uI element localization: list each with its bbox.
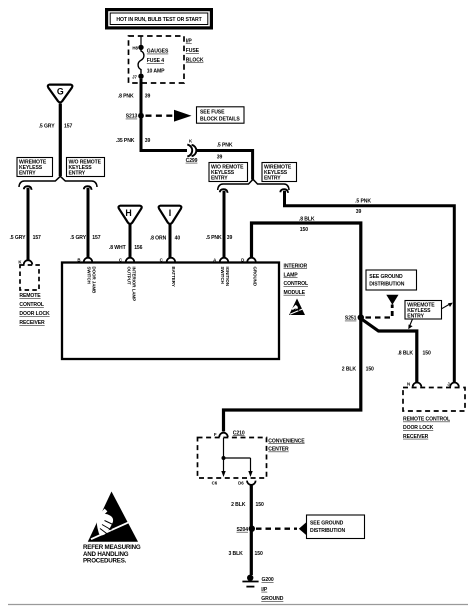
svg-text:RECEIVER: RECEIVER [403,434,429,440]
branch hook K [24,186,32,190]
svg-text:C299: C299 [186,158,198,164]
svg-text:150: 150 [255,551,263,557]
pin hook A [220,258,229,262]
svg-text:157: 157 [33,235,41,241]
pin hook N [413,383,422,387]
connector C299 [186,139,198,164]
svg-text:150: 150 [423,350,431,356]
option box W/REMOTE KEYLESS ENTRY left [17,158,53,177]
ESD warning logo [88,492,140,542]
svg-text:DISTRIBUTION: DISTRIBUTION [310,528,345,534]
svg-text:PROCEDURES.: PROCEDURES. [83,558,127,565]
svg-text:BLOCK DETAILS: BLOCK DETAILS [200,117,240,123]
svg-text:.8 ORN: .8 ORN [150,236,167,242]
svg-text:HOT IN RUN, BULB TEST OR START: HOT IN RUN, BULB TEST OR START [116,17,202,23]
svg-text:REMOTE: REMOTE [19,293,41,299]
svg-text:BLOCK: BLOCK [186,58,204,64]
branch hook A [220,189,228,193]
svg-text:F: F [214,432,217,437]
svg-text:ENTRY: ENTRY [264,176,281,182]
svg-text:INTERIOR LAMPOUTPUT: INTERIOR LAMPOUTPUT [127,267,137,302]
branch hook B [84,186,92,190]
svg-text:.5 PNK: .5 PNK [206,235,222,241]
remote control door lock receiver label left [19,293,50,326]
dashed reference arrow from S213 [146,110,192,122]
convenience center internal wiring [221,438,252,477]
wire pin D up over to S251 down to C210 [224,223,361,432]
splice S204 [237,526,256,533]
svg-text:I/P: I/P [261,587,268,593]
svg-text:C210: C210 [233,430,245,436]
svg-text:40: 40 [175,236,181,242]
splice S251 [345,314,364,321]
svg-text:39: 39 [217,155,223,161]
svg-text:CONTROL: CONTROL [19,302,43,308]
svg-text:157: 157 [64,124,72,130]
see ground distribution box lower [307,515,365,539]
svg-text:CENTER: CENTER [268,447,289,453]
svg-text:2 BLK: 2 BLK [231,502,246,508]
svg-text:150: 150 [256,502,264,508]
svg-text:G200: G200 [262,577,274,583]
svg-text:K: K [189,139,193,144]
svg-text:J7: J7 [132,74,137,79]
wire H to pin C [129,224,132,258]
svg-text:IGNITIONSWITCH: IGNITIONSWITCH [220,267,230,287]
svg-text:ENTRY: ENTRY [69,171,86,177]
svg-text:157: 157 [92,235,100,241]
svg-text:H: H [125,208,131,218]
svg-text:CONTROL: CONTROL [284,281,308,287]
svg-text:GROUND: GROUND [252,267,257,287]
pin K hook left receiver [24,260,33,264]
svg-text:ENTRY: ENTRY [211,176,228,182]
convenience center dashed box [198,438,267,479]
svg-text:K: K [18,260,22,265]
svg-text:CONVENIENCE: CONVENIENCE [268,438,305,444]
svg-text:39: 39 [356,209,362,215]
svg-text:ENTRY: ENTRY [19,171,36,177]
wire C299 to option split [197,151,253,180]
wire G down to option split [59,104,62,177]
svg-text:H8: H8 [132,45,138,50]
svg-text:150: 150 [300,227,308,233]
svg-text:GAUGES: GAUGES [147,49,169,55]
H triangle [119,206,142,224]
pin hook D6 [247,481,256,485]
svg-text:39: 39 [227,235,233,241]
svg-text:SEE GROUND: SEE GROUND [369,274,403,280]
option box W/O REMOTE KEYLESS ENTRY left [67,158,105,177]
svg-text:S251: S251 [345,316,357,322]
callout arrow to pnk wire [442,303,453,309]
ESD symbol small [289,299,306,316]
svg-text:.5 GRY: .5 GRY [39,124,56,130]
I triangle [159,206,182,224]
I/P fuse block dashed box [129,36,185,83]
power feed box HOT IN RUN, BULB TEST OR START [105,8,213,30]
ground label G200 I/P GROUND [261,577,283,602]
svg-text:B: B [77,258,80,263]
pin hook B [84,258,93,262]
ESD warning text [83,544,141,565]
pin hook C battery [167,258,176,262]
svg-text:N: N [407,382,410,387]
see ground distribution box upper [366,270,417,290]
svg-text:C6: C6 [212,481,218,486]
remote control door lock receiver dashed box [403,388,465,412]
svg-text:2 BLK: 2 BLK [342,367,357,373]
svg-text:D: D [241,258,244,263]
svg-text:INTERIOR: INTERIOR [284,263,308,269]
svg-text:DISTRIBUTION: DISTRIBUTION [369,282,404,288]
svg-text:.5 GRY: .5 GRY [70,235,87,241]
svg-text:39: 39 [145,138,151,144]
wire D6 down to ground [250,485,253,575]
branch hook right [280,189,288,193]
svg-text:FUSE: FUSE [186,48,200,54]
wire to pin K [27,188,30,261]
wire I to pin C [169,224,172,258]
I/P fuse block label [186,39,204,64]
pin hook C interior lamp output [126,258,135,262]
svg-text:SEE GROUND: SEE GROUND [310,521,344,527]
connector C210 pin F hook [219,433,228,437]
svg-text:10 AMP: 10 AMP [147,69,165,75]
wire to pin B [87,188,90,258]
svg-text:.8 PNK: .8 PNK [118,93,134,99]
dashed reference from S204 [256,522,306,535]
svg-text:FUSE 4: FUSE 4 [147,58,165,64]
wire to pin A [223,191,226,258]
pin hook D [247,258,256,262]
svg-text:MODULE: MODULE [284,290,306,296]
wire fuse J7 down to corner and right to C299 [141,79,187,151]
interior lamp control module label [284,263,308,296]
svg-text:SEE FUSE: SEE FUSE [200,110,225,116]
svg-text:S213: S213 [126,114,138,120]
svg-text:DOOR LOCK: DOOR LOCK [403,425,434,431]
interior lamp control module box [62,263,279,360]
ground G200 [242,575,258,587]
svg-text:RECEIVER: RECEIVER [19,320,45,326]
pin letters [77,258,244,263]
see fuse block details box [197,107,245,123]
svg-text:GROUND: GROUND [261,596,283,602]
svg-text:ENTRY: ENTRY [407,314,424,320]
option box W/O REMOTE KEYLESS ENTRY [209,163,248,182]
option box W/REMOTE KEYLESS ENTRY [262,163,297,182]
svg-text:.5 PNK: .5 PNK [355,198,371,204]
svg-text:3 BLK: 3 BLK [228,551,243,557]
svg-text:.35 PNK: .35 PNK [116,138,135,144]
callout arrow to blk wire [408,319,412,329]
svg-text:G: G [57,86,64,96]
wire S251 branch to pin N [361,319,417,383]
svg-text:REMOTE CONTROL: REMOTE CONTROL [403,417,450,423]
svg-text:LAMP: LAMP [284,273,299,279]
svg-text:150: 150 [366,367,374,373]
dashed reference from S251 to ground distribution [366,295,399,318]
svg-text:I: I [169,208,171,218]
svg-text:I/P: I/P [186,39,193,45]
pin hook J [450,383,459,387]
w/remote keyless entry callout [405,301,442,320]
convenience center label [268,438,305,452]
option split brace 2 [218,179,289,190]
svg-text:.8 BLK: .8 BLK [299,216,315,222]
svg-text:D6: D6 [238,481,244,486]
splice S213 [126,113,144,120]
remote control door lock receiver dashed box left [20,265,39,290]
svg-text:.5 GRY: .5 GRY [9,235,26,241]
svg-text:.8 BLK: .8 BLK [397,350,413,356]
wire right branch to pin J [285,191,455,383]
G triangle [48,85,73,103]
svg-text:S204: S204 [237,527,249,533]
remote control door lock receiver label [403,417,450,440]
svg-text:.5 PNK: .5 PNK [217,142,233,148]
svg-text:DOOR LOCK: DOOR LOCK [19,311,50,317]
bottom rule [8,604,468,606]
stub wire into fuse block [140,37,142,46]
svg-text:.8 WHT: .8 WHT [109,245,127,251]
option split brace 1 [19,176,97,187]
svg-text:39: 39 [145,93,151,99]
fuse GAUGES FUSE 4 10 AMP [132,45,169,80]
svg-text:DOOR JAMBSWITCH: DOOR JAMBSWITCH [87,267,97,294]
svg-text:BATTERY: BATTERY [171,267,176,287]
svg-text:156: 156 [134,245,142,251]
